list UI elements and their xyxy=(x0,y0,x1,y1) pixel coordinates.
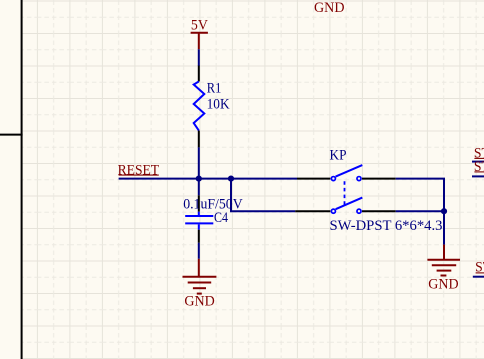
svg-text:5V: 5V xyxy=(191,17,208,33)
wire right edge first xyxy=(472,161,484,163)
capacitor C4 pin 1 xyxy=(198,195,200,211)
net label ST (right edge, second) xyxy=(474,159,484,175)
switch KP lever top xyxy=(336,165,363,177)
svg-text:GND: GND xyxy=(184,294,214,310)
wire RESET horizontal xyxy=(119,178,297,180)
wire node C to ground xyxy=(443,211,445,244)
net label RESET xyxy=(118,163,160,179)
svg-text:RESET: RESET xyxy=(118,163,160,179)
net label ST (right edge, first) xyxy=(474,145,484,161)
switch KP pin top-right xyxy=(362,178,396,180)
svg-text:10K: 10K xyxy=(207,97,230,113)
svg-text:R1: R1 xyxy=(207,80,222,96)
junction node B xyxy=(228,176,234,182)
wire node A to C4 xyxy=(198,179,200,196)
wire C4 to ground xyxy=(198,243,200,259)
power port 5V xyxy=(191,17,209,49)
switch KP pin bottom-left xyxy=(295,210,330,212)
wire 5V to R1 xyxy=(198,49,200,66)
resistor R1 pin 2 xyxy=(198,131,200,148)
wire node B down xyxy=(231,179,295,212)
svg-text:GND: GND xyxy=(314,0,345,16)
wire right edge third xyxy=(473,276,484,278)
svg-text:SW-DPST 6*6*4.3: SW-DPST 6*6*4.3 xyxy=(330,218,443,234)
switch KP pin bottom-right xyxy=(362,210,396,212)
capacitor C4 xyxy=(185,212,213,230)
resistor R1 xyxy=(194,82,205,131)
svg-text:KP: KP xyxy=(330,148,347,164)
ground GND (left) xyxy=(183,259,217,310)
svg-text:ST: ST xyxy=(474,159,484,175)
wire bottom-right of switch xyxy=(396,210,444,212)
net label ST (right edge, third) xyxy=(475,260,484,276)
wire top-right of switch xyxy=(396,179,444,212)
junction node A xyxy=(196,176,202,182)
svg-text:GND: GND xyxy=(428,277,458,293)
wire R1 to node xyxy=(198,147,200,178)
switch KP pin top-left xyxy=(297,178,330,180)
junction node C xyxy=(441,208,447,214)
ground GND (right) xyxy=(427,245,460,293)
svg-text:C4: C4 xyxy=(214,210,229,226)
resistor R1 pin 1 xyxy=(198,66,200,82)
wire right edge second xyxy=(472,175,484,177)
capacitor C4 pin 2 xyxy=(198,230,200,243)
switch KP contacts xyxy=(331,177,361,214)
switch KP lever bottom xyxy=(336,198,363,210)
switch KP link dashed xyxy=(344,181,346,206)
